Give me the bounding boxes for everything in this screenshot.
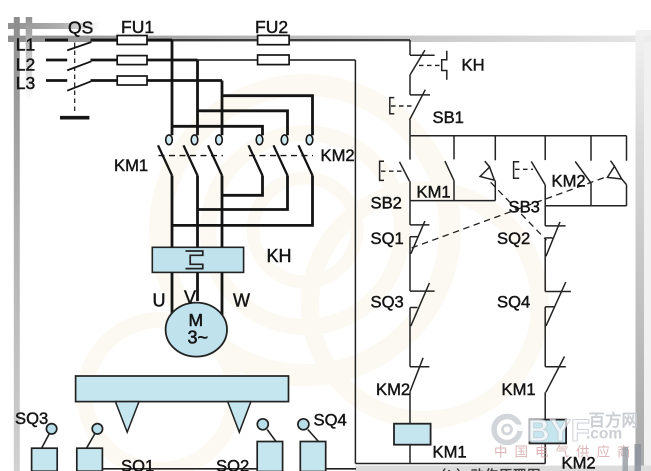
wire KM1 column U bbox=[171, 176, 174, 248]
svg-text:KM2: KM2 bbox=[321, 146, 355, 165]
wire right group bottom bbox=[545, 205, 626, 207]
KM1 linkage dashed bbox=[159, 155, 224, 157]
cam dog left bbox=[115, 402, 139, 433]
svg-text:（b）动作原理图: （b）动作原理图 bbox=[433, 468, 542, 471]
linkage SQ2 to SQ2-NO dashed bbox=[491, 182, 547, 240]
stop button SB1 bbox=[390, 90, 430, 136]
fuse FU1 phase L2 bbox=[117, 56, 147, 65]
bottom rail bbox=[355, 463, 545, 465]
svg-text:中国电气供应商: 中国电气供应商 bbox=[494, 444, 638, 460]
svg-text:SQ4: SQ4 bbox=[314, 411, 347, 430]
limit contact SQ1 NO bbox=[607, 136, 626, 206]
svg-text:L2: L2 bbox=[16, 54, 35, 74]
cam dog right bbox=[228, 402, 251, 433]
coil KM1 bbox=[394, 424, 431, 445]
svg-text:QS: QS bbox=[68, 18, 93, 38]
svg-text:KM1: KM1 bbox=[114, 156, 148, 175]
wire L1 thin extension to FU2 and control rail bbox=[172, 39, 410, 41]
wire left group bottom bbox=[410, 200, 495, 202]
wire KM2 contact 4 to column W bbox=[222, 176, 263, 196]
svg-text:L3: L3 bbox=[16, 73, 35, 93]
wire L2 stub bbox=[46, 59, 67, 62]
return rail bbox=[354, 60, 356, 464]
start button SB3 bbox=[514, 136, 546, 206]
wire KM1 column W bbox=[221, 176, 224, 248]
svg-text:KM1: KM1 bbox=[502, 380, 536, 399]
wire KM2 contact 6 to column U bbox=[172, 176, 313, 226]
KM1 contact 1 blade bbox=[158, 145, 172, 175]
KM2 contact 4 blade bbox=[249, 145, 263, 175]
thermal relay KH heater box bbox=[152, 247, 243, 272]
limit contact SQ4 NC bbox=[545, 282, 571, 367]
wire L1 crossover to KM2 contact 4 bbox=[172, 126, 263, 135]
page corner bars (decorative) bbox=[8, 23, 100, 29]
wire L2 thin extension to FU2 and return rail bbox=[198, 59, 356, 61]
wire L2 from QS to FU1 to node B bbox=[91, 59, 198, 62]
wire L3 stub bbox=[46, 79, 67, 82]
KM2 contact 6 terminal bbox=[306, 135, 313, 145]
svg-text:L1: L1 bbox=[16, 34, 35, 54]
coil KM2 bbox=[530, 420, 567, 444]
limit contact SQ1 NC bbox=[410, 221, 429, 291]
svg-text:百方网: 百方网 bbox=[589, 410, 639, 430]
svg-text:KH: KH bbox=[267, 246, 292, 266]
svg-text:BYF: BYF bbox=[527, 412, 590, 448]
svg-text:SQ3: SQ3 bbox=[15, 409, 48, 428]
svg-text:SQ3: SQ3 bbox=[371, 293, 404, 312]
fuse FU2 upper bbox=[258, 35, 290, 44]
wire U to motor bbox=[171, 272, 174, 316]
wire L3 drop to KM1 contact 3 bbox=[221, 81, 224, 136]
svg-text:SB2: SB2 bbox=[371, 194, 402, 213]
svg-text:SB1: SB1 bbox=[433, 108, 464, 127]
wire L3 from QS to FU1 to node C bbox=[91, 79, 223, 82]
svg-text:V: V bbox=[184, 288, 196, 308]
start button SB2 bbox=[380, 136, 410, 201]
svg-text:SQ2: SQ2 bbox=[497, 229, 530, 248]
fuse FU2 lower bbox=[258, 55, 290, 65]
limit switch SQ4 body bbox=[298, 419, 326, 471]
bus node bbox=[410, 135, 627, 137]
wires KH to motor bbox=[172, 272, 222, 317]
workbench table bbox=[76, 376, 289, 402]
svg-text:KM2: KM2 bbox=[552, 172, 586, 191]
svg-text:KH: KH bbox=[462, 56, 485, 75]
KM2 contact 5 terminal bbox=[281, 135, 288, 145]
fuse FU1 phase L3 bbox=[117, 76, 147, 85]
KM1 contact 1 terminal bbox=[166, 135, 173, 145]
MAIN CIRCUIT bbox=[45, 40, 410, 81]
KM1 contact 2 blade bbox=[184, 145, 198, 175]
svg-text:SQ4: SQ4 bbox=[497, 293, 530, 312]
limit switch SQ1 body bbox=[77, 424, 103, 471]
floor line bbox=[103, 468, 257, 470]
KM1 contact 3 terminal bbox=[216, 135, 223, 145]
KM1 contact 2 terminal bbox=[191, 135, 198, 145]
KM2 contact 5 blade bbox=[274, 145, 288, 175]
wire coil KM1 to rail bbox=[409, 445, 411, 464]
linkage SQ1 to SQ1-NO dashed bbox=[412, 176, 608, 248]
wire KM1 column V bbox=[196, 176, 199, 248]
wire V to motor bbox=[196, 272, 199, 301]
svg-text:SQ2: SQ2 bbox=[216, 457, 249, 471]
KM1 contact 3 blade bbox=[208, 145, 222, 175]
wire coil KM2 to rail bbox=[544, 443, 546, 463]
interlock contact KM1 NC bbox=[545, 357, 566, 420]
wire L2 crossover to KM2 contact 5 bbox=[198, 111, 288, 135]
thermal relay KH heater element bbox=[186, 251, 203, 269]
wires from fuses down to contactor KM1 and crossovers to KM2 bbox=[172, 40, 313, 135]
wire W to motor bbox=[221, 272, 224, 317]
wire L1 drop to KM1 contact 1 bbox=[171, 40, 174, 135]
bottom-right grey bars (decorative) bbox=[623, 447, 629, 471]
contactor KM2 main contacts bbox=[249, 135, 314, 176]
switch QS handle bar bbox=[60, 116, 89, 120]
svg-text:W: W bbox=[233, 291, 250, 311]
svg-text:SQ1: SQ1 bbox=[371, 229, 404, 248]
wire L2 drop to KM1 contact 2 bbox=[196, 60, 199, 135]
svg-text:KM1: KM1 bbox=[433, 443, 467, 462]
KM2 contact 6 blade bbox=[299, 145, 313, 175]
svg-text:FU2: FU2 bbox=[255, 17, 288, 37]
wires from contacts down to thermal relay, KM2 crossing to KM1 columns bbox=[172, 176, 313, 248]
wire L1 from QS to FU1 to node A bbox=[91, 39, 173, 42]
limit contact SQ2 NO bbox=[480, 136, 495, 201]
svg-text:U: U bbox=[153, 291, 166, 311]
fuse FU1 phase L1 bbox=[117, 36, 147, 45]
interlock contact KM2 NC bbox=[410, 358, 429, 424]
switch QS blades bbox=[67, 42, 91, 91]
limit contact SQ2 NC bbox=[545, 222, 565, 292]
contactor KM1 main contacts bbox=[158, 135, 223, 176]
aux contact KM1 self-hold bbox=[445, 136, 454, 201]
wire KM2 contact 5 to column V bbox=[198, 176, 288, 210]
KM2 linkage dashed bbox=[249, 155, 313, 157]
limit switch SQ3 body bbox=[32, 424, 58, 471]
thermal contact KH bbox=[410, 40, 447, 95]
wire left column bbox=[409, 201, 411, 225]
svg-text:KM1: KM1 bbox=[417, 183, 451, 202]
wire right column bbox=[544, 206, 546, 226]
watermark logo bbox=[494, 410, 638, 448]
floor line right bbox=[326, 468, 356, 470]
motor M bbox=[166, 303, 227, 357]
svg-text:KM2: KM2 bbox=[376, 380, 410, 399]
svg-text:SB3: SB3 bbox=[509, 198, 540, 217]
switch QS linkage dashed bbox=[74, 43, 76, 113]
svg-text:FU1: FU1 bbox=[121, 17, 154, 37]
KM2 contact 4 terminal bbox=[256, 135, 263, 145]
wire L1 stub bbox=[45, 39, 68, 42]
limit contact SQ3 NC bbox=[410, 283, 435, 367]
svg-text:SQ1: SQ1 bbox=[121, 457, 154, 471]
limit switch SQ2 body bbox=[257, 419, 282, 471]
svg-text:3~: 3~ bbox=[188, 328, 209, 348]
wire L3 crossover to KM2 contact 6 bbox=[222, 96, 313, 136]
aux contact KM2 self-hold bbox=[575, 136, 591, 206]
